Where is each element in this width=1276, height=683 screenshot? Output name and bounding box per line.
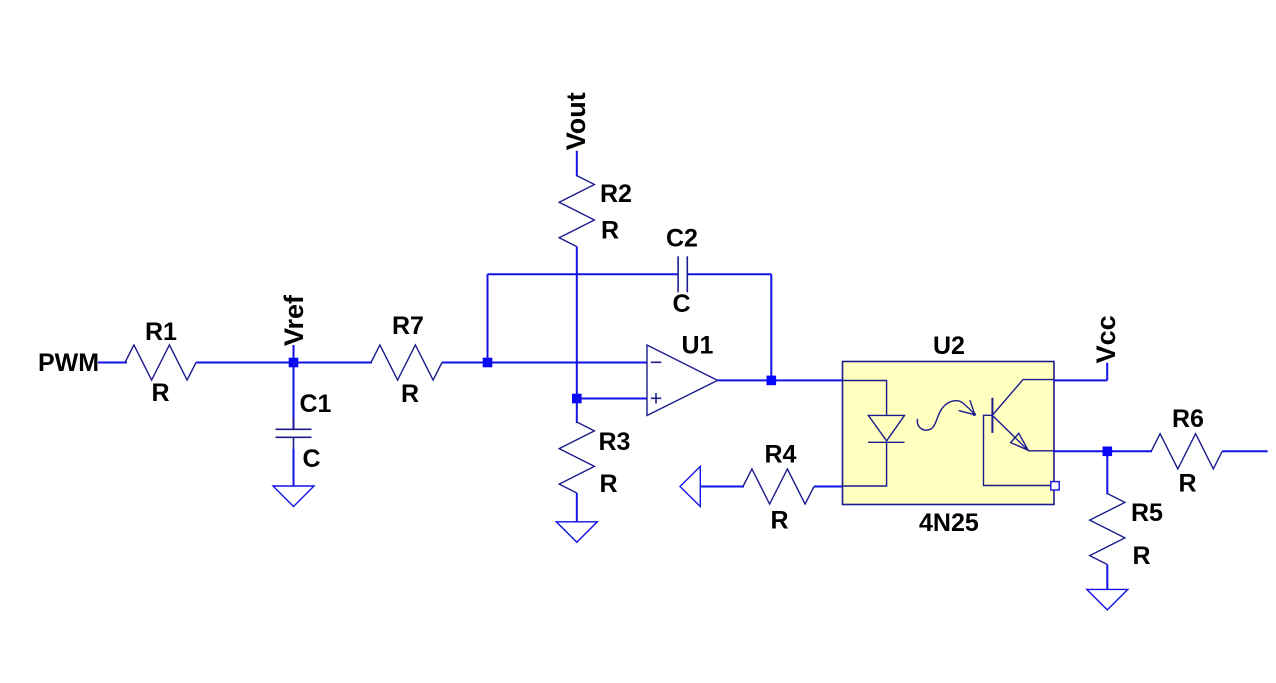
wire R1 to node Vref bbox=[196, 362, 294, 364]
wire feedback top left bbox=[488, 273, 679, 275]
wire feedback top right bbox=[687, 273, 771, 275]
ground (R5) bbox=[1087, 589, 1128, 610]
resistor R4 bbox=[743, 441, 814, 535]
svg-text:R: R bbox=[600, 470, 618, 498]
light coupling arrow bbox=[917, 400, 976, 430]
svg-text:R4: R4 bbox=[765, 441, 797, 469]
svg-text:R: R bbox=[401, 380, 419, 408]
svg-text:R6: R6 bbox=[1172, 405, 1204, 433]
ground (C1) bbox=[273, 486, 314, 507]
wire junction to R3 bbox=[576, 399, 578, 424]
svg-text:R2: R2 bbox=[600, 180, 632, 208]
wire R6 to right edge bbox=[1222, 450, 1267, 452]
svg-text:C: C bbox=[673, 290, 691, 318]
svg-text:C1: C1 bbox=[300, 390, 332, 418]
node at op-amp output bbox=[767, 376, 777, 386]
capacitor C2 bbox=[666, 225, 698, 319]
svg-text:C: C bbox=[303, 445, 321, 473]
wire R5 to ground bbox=[1106, 565, 1108, 590]
svg-text:C2: C2 bbox=[666, 225, 698, 253]
op-amp U1 bbox=[647, 332, 718, 416]
svg-text:R: R bbox=[152, 379, 170, 407]
wire junction to op-amp inverting input bbox=[488, 362, 648, 364]
resistor R2 bbox=[559, 176, 632, 247]
wire feedback right leg bbox=[770, 274, 772, 380]
wire PWM to R1 bbox=[98, 362, 127, 364]
svg-text:R: R bbox=[771, 507, 789, 535]
capacitor C1 bbox=[276, 390, 332, 473]
wire R2 bottom to plus junction bbox=[576, 247, 578, 399]
svg-text:4N25: 4N25 bbox=[919, 509, 979, 537]
wire R4 to U2 bbox=[814, 486, 843, 488]
wire Vout stub bbox=[576, 151, 578, 177]
svg-text:Vref: Vref bbox=[279, 294, 309, 346]
node at emitter junction bbox=[1103, 447, 1113, 457]
junction node at non-inverting input bbox=[572, 394, 582, 404]
resistor R3 bbox=[559, 422, 630, 498]
wire emitter to node bbox=[1054, 450, 1152, 452]
ground (R3) bbox=[556, 522, 597, 543]
resistor R6 bbox=[1151, 405, 1222, 498]
svg-text:Vcc: Vcc bbox=[1091, 315, 1121, 363]
wire C1 to ground bbox=[293, 449, 295, 486]
svg-text:R: R bbox=[1133, 542, 1151, 570]
resistor R5 bbox=[1090, 494, 1163, 571]
node Vref bbox=[279, 294, 309, 367]
pin 6 (base) marker square bbox=[1051, 482, 1059, 490]
svg-text:R5: R5 bbox=[1131, 499, 1163, 527]
resistor R1 bbox=[125, 318, 196, 407]
svg-text:PWM: PWM bbox=[38, 349, 99, 377]
svg-text:U2: U2 bbox=[933, 332, 965, 360]
resistor R7 bbox=[371, 312, 442, 408]
wire R7 to feedback junction bbox=[442, 362, 488, 364]
net label Vcc bbox=[1091, 315, 1121, 380]
wire node Vref to R7 bbox=[294, 362, 373, 364]
optocoupler U2 body bbox=[843, 332, 1055, 537]
svg-text:R1: R1 bbox=[145, 318, 177, 346]
wire R3 to ground bbox=[576, 493, 578, 522]
LED diode inside U2 bbox=[843, 381, 905, 487]
wire collector to Vcc bbox=[1054, 379, 1107, 381]
wire C1 top lead bbox=[293, 363, 295, 430]
phototransistor inside U2 bbox=[984, 380, 1054, 486]
svg-text:R3: R3 bbox=[599, 428, 631, 456]
svg-text:Vout: Vout bbox=[561, 92, 591, 150]
wire op-amp output to U2 bbox=[718, 379, 843, 381]
svg-text:R: R bbox=[1179, 470, 1197, 498]
off-page connector (R4 left arrow) bbox=[680, 466, 700, 506]
wire junction to op-amp non-inverting input bbox=[577, 398, 647, 400]
wire feedback left leg bbox=[487, 274, 489, 362]
svg-text:R7: R7 bbox=[392, 312, 424, 340]
svg-text:U1: U1 bbox=[682, 332, 714, 360]
wire node to R5 bbox=[1106, 451, 1108, 494]
junction node at inverting input bbox=[483, 358, 493, 368]
wire arrow to R4 bbox=[700, 486, 744, 488]
svg-text:R: R bbox=[601, 217, 619, 245]
